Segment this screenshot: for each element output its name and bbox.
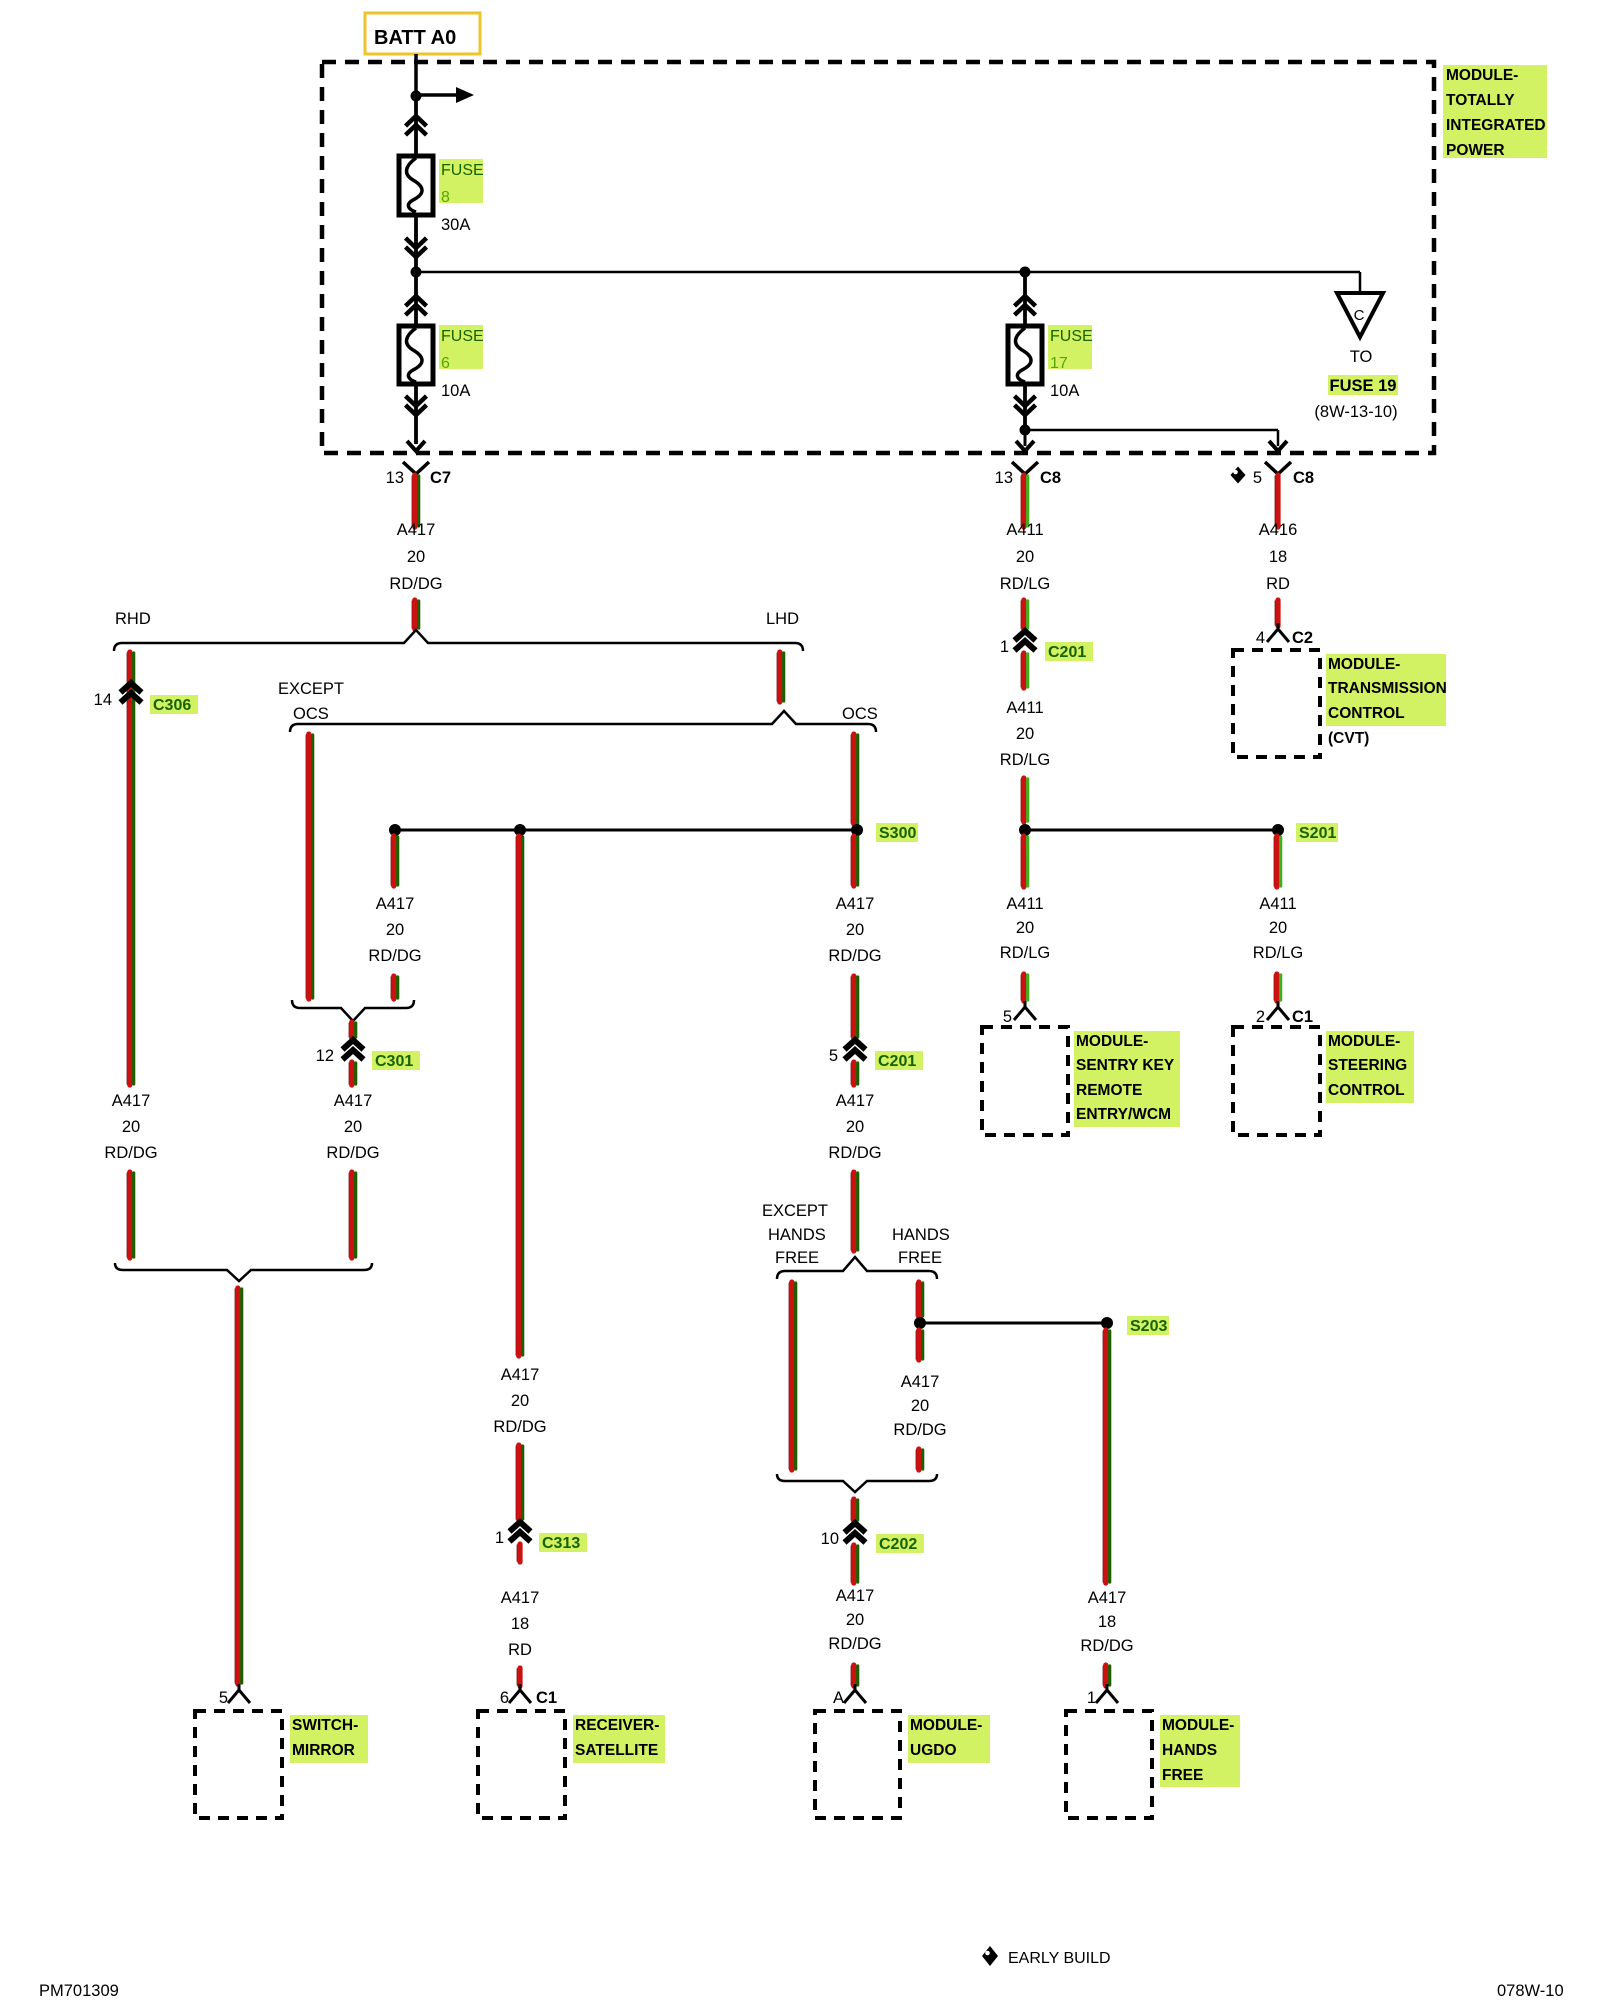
svg-text:RD/DG: RD/DG xyxy=(828,1144,881,1162)
svg-text:20: 20 xyxy=(407,548,425,566)
label MODULE-UGDO xyxy=(908,1715,990,1763)
wire junction to fuse 8 xyxy=(414,96,418,158)
wire arrow to other circuits xyxy=(416,93,457,97)
svg-text:A417: A417 xyxy=(376,895,415,913)
svg-text:FUSE 19: FUSE 19 xyxy=(1330,377,1397,395)
label MODULE-TRANSMISSION CONTROL CVT xyxy=(1326,654,1446,726)
svg-text:SENTRY KEY: SENTRY KEY xyxy=(1076,1057,1175,1074)
svg-text:EXCEPT: EXCEPT xyxy=(278,680,344,698)
connector pin 5 sentry xyxy=(1014,1001,1036,1020)
connector C301 chevrons xyxy=(343,1040,364,1050)
module box MODULE-SENTRY KEY REMOTE ENTRY/WCM xyxy=(982,1027,1068,1135)
svg-text:C8: C8 xyxy=(1293,469,1314,487)
svg-text:A417: A417 xyxy=(836,1587,875,1605)
connector C8 pin 13 symbol xyxy=(1012,462,1038,474)
svg-text:CONTROL: CONTROL xyxy=(1328,1082,1405,1099)
wire A417 RD/DG S203 to hands-free module xyxy=(1102,1331,1104,1582)
svg-text:A417: A417 xyxy=(836,895,875,913)
wire BATT A0 feed xyxy=(414,54,418,93)
svg-text:30A: 30A xyxy=(441,216,470,234)
svg-text:A417: A417 xyxy=(501,1589,540,1607)
svg-text:14: 14 xyxy=(94,691,112,709)
wire A417 RD/DG above C202 xyxy=(850,1500,852,1520)
svg-text:HANDS: HANDS xyxy=(768,1226,826,1244)
svg-text:A411: A411 xyxy=(1006,895,1043,913)
merge brace into C202 xyxy=(777,1474,937,1492)
early build diamond marker at C8 pin 5 xyxy=(1231,467,1246,484)
label FUSE 6 10A xyxy=(439,325,483,369)
svg-text:SATELLITE: SATELLITE xyxy=(575,1742,658,1759)
svg-text:2: 2 xyxy=(1256,1008,1265,1026)
svg-text:A417: A417 xyxy=(901,1373,940,1391)
svg-text:18: 18 xyxy=(511,1615,529,1633)
module box SWITCH-MIRROR xyxy=(195,1711,282,1818)
wire junction to C8 pin 13 xyxy=(1024,430,1027,446)
wire A417 RD/DG to RHD-LHD split xyxy=(411,601,413,628)
svg-text:C8: C8 xyxy=(1040,469,1061,487)
svg-text:S201: S201 xyxy=(1299,825,1336,842)
wire A417 RD/DG to switch-mirror xyxy=(234,1289,236,1683)
svg-text:MODULE-: MODULE- xyxy=(910,1717,982,1734)
wire A411 RD/LG to sentry module xyxy=(1020,975,1022,1000)
svg-text:FREE: FREE xyxy=(1162,1767,1203,1784)
connector chevrons below fuse 8 xyxy=(406,238,427,248)
wire A416 RD below C8 pin 5 xyxy=(1274,476,1276,526)
svg-text:RD/LG: RD/LG xyxy=(1000,575,1050,593)
connector pin 6 C1 receiver xyxy=(509,1684,531,1703)
svg-text:C301: C301 xyxy=(375,1053,413,1070)
wire A417 RD/DG below C201 xyxy=(850,1063,852,1084)
wire bus to fuse 6 xyxy=(414,272,418,328)
svg-text:20: 20 xyxy=(386,921,404,939)
connector pin 1 hands-free xyxy=(1096,1684,1118,1703)
svg-text:RD/DG: RD/DG xyxy=(368,947,421,965)
connector pin 4 C2 transmission xyxy=(1267,623,1289,642)
connector C313 chevrons xyxy=(510,1522,531,1532)
connector pin 5 switch-mirror xyxy=(228,1684,250,1703)
svg-text:6: 6 xyxy=(441,355,450,372)
svg-text:ENTRY/WCM: ENTRY/WCM xyxy=(1076,1106,1171,1123)
svg-text:MODULE-: MODULE- xyxy=(1076,1033,1148,1050)
svg-text:20: 20 xyxy=(122,1118,140,1136)
wire A417 RD/DG to UGDO xyxy=(850,1666,852,1685)
svg-text:20: 20 xyxy=(1269,919,1287,937)
wire A417 RD/DG above C313 xyxy=(515,1446,517,1519)
svg-text:(CVT): (CVT) xyxy=(1328,730,1369,747)
svg-text:REMOTE: REMOTE xyxy=(1076,1082,1142,1099)
svg-text:20: 20 xyxy=(344,1118,362,1136)
svg-text:20: 20 xyxy=(1016,725,1034,743)
RHD / LHD split brace xyxy=(114,630,803,651)
wire A411 RD/LG below C8 xyxy=(1020,476,1022,526)
wire A417 RD/DG hands-free branch xyxy=(915,1283,917,1316)
svg-text:S300: S300 xyxy=(879,825,916,842)
svg-text:FUSE: FUSE xyxy=(441,328,484,345)
svg-text:5: 5 xyxy=(1253,469,1262,487)
svg-text:20: 20 xyxy=(846,1118,864,1136)
svg-text:RD/DG: RD/DG xyxy=(828,947,881,965)
wire A417 RD/DG above C301 xyxy=(348,1023,350,1037)
svg-text:A411: A411 xyxy=(1259,895,1296,913)
svg-text:10: 10 xyxy=(821,1530,839,1548)
label S300 xyxy=(876,823,918,842)
battery feed label BATT A0 xyxy=(365,13,480,54)
svg-text:C7: C7 xyxy=(430,469,451,487)
svg-text:RD: RD xyxy=(1266,575,1290,593)
module box MODULE-TRANSMISSION CONTROL xyxy=(1233,650,1320,757)
splice S201 bus xyxy=(1025,829,1278,832)
label MODULE-HANDS FREE xyxy=(1160,1715,1240,1787)
svg-text:078W-10: 078W-10 xyxy=(1497,1982,1564,2000)
svg-text:A417: A417 xyxy=(112,1092,151,1110)
svg-text:RHD: RHD xyxy=(115,610,151,628)
svg-text:10A: 10A xyxy=(1050,382,1079,400)
svg-text:EXCEPT: EXCEPT xyxy=(762,1202,828,1220)
legend early build diamond xyxy=(982,1946,998,1966)
wire A417 RD/DG to hands-free module xyxy=(1102,1666,1104,1685)
wire A417 RD/DG except-OCS branch xyxy=(305,735,307,998)
svg-text:MODULE-: MODULE- xyxy=(1328,1033,1400,1050)
wire A416 RD to transmission module xyxy=(1274,601,1276,625)
EXCEPT OCS / OCS split brace xyxy=(290,711,876,732)
connector C306 chevrons xyxy=(121,683,142,693)
label FUSE 17 10A xyxy=(1048,325,1092,369)
merge brace to switch-mirror xyxy=(115,1263,372,1281)
connector C202 chevrons xyxy=(845,1523,866,1533)
svg-text:1: 1 xyxy=(1087,1689,1096,1707)
wire horizontal bus xyxy=(416,271,1360,274)
wire fuse 17 to junction xyxy=(1023,384,1027,430)
svg-text:FREE: FREE xyxy=(775,1249,819,1267)
arrowhead at C7 xyxy=(407,441,425,451)
connector C201 pin 5 chevrons xyxy=(845,1040,866,1050)
svg-text:C201: C201 xyxy=(1048,644,1086,661)
svg-text:20: 20 xyxy=(846,921,864,939)
EXCEPT HANDS FREE / HANDS FREE split brace xyxy=(777,1257,937,1279)
svg-text:A411: A411 xyxy=(1006,699,1043,717)
wire A417 RD/DG S300 stub lower xyxy=(390,977,392,998)
wire bus to fuse 17 xyxy=(1023,272,1027,328)
wire A417 RD to receiver-satellite xyxy=(516,1669,518,1685)
wire fuse 6 to connector C7 xyxy=(414,384,418,444)
svg-text:C2: C2 xyxy=(1292,629,1313,647)
wire A417 RD/DG S300 stub xyxy=(390,837,392,885)
node S300 middle xyxy=(514,824,526,836)
module box MODULE-STEERING CONTROL xyxy=(1233,1027,1320,1135)
svg-text:C306: C306 xyxy=(153,697,191,714)
svg-text:A411: A411 xyxy=(1006,521,1043,539)
connector pin 2 C1 steering xyxy=(1267,1001,1289,1020)
svg-text:RD/LG: RD/LG xyxy=(1253,944,1303,962)
off-page connector C triangle xyxy=(1337,293,1383,337)
svg-text:INTEGRATED: INTEGRATED xyxy=(1446,117,1546,134)
module box MODULE-HANDS FREE xyxy=(1066,1711,1152,1818)
wire A411 RD/LG below C201 xyxy=(1020,654,1022,687)
connector chevrons below fuse 17 xyxy=(1015,396,1036,406)
splice S300 bus xyxy=(395,829,857,832)
svg-text:FUSE: FUSE xyxy=(1050,328,1093,345)
svg-text:TO: TO xyxy=(1350,348,1373,366)
svg-text:RD/DG: RD/DG xyxy=(104,1144,157,1162)
svg-text:RD/DG: RD/DG xyxy=(493,1418,546,1436)
label S203 xyxy=(1127,1316,1169,1335)
svg-text:A: A xyxy=(833,1689,844,1707)
label MODULE-STEERING CONTROL xyxy=(1326,1031,1414,1103)
wire A417 RD/DG LHD branch xyxy=(776,653,778,701)
svg-text:C201: C201 xyxy=(878,1053,916,1070)
arrowhead at C8 pin 5 xyxy=(1269,441,1287,451)
connector chevrons above fuse 17 xyxy=(1015,296,1036,306)
svg-text:5: 5 xyxy=(1003,1008,1012,1026)
wire A417 RD/DG above merge xyxy=(915,1450,917,1469)
svg-text:MODULE-: MODULE- xyxy=(1162,1717,1234,1734)
svg-text:OCS: OCS xyxy=(842,705,878,723)
module box RECEIVER-SATELLITE xyxy=(478,1711,565,1818)
svg-text:12: 12 xyxy=(316,1047,334,1065)
module-totally integrated power dashed box xyxy=(322,62,1434,453)
label MODULE-TOTALLY INTEGRATED POWER xyxy=(1443,65,1547,158)
svg-text:TOTALLY: TOTALLY xyxy=(1446,92,1515,109)
connector C7 pin 13 symbol xyxy=(403,462,429,474)
svg-text:EARLY BUILD: EARLY BUILD xyxy=(1008,1950,1111,1967)
svg-text:OCS: OCS xyxy=(293,705,329,723)
wire A417 RD/DG S300 to C313 xyxy=(515,837,517,1355)
wire A411 RD/LG above C201 xyxy=(1020,601,1022,628)
svg-text:MIRROR: MIRROR xyxy=(292,1742,355,1759)
svg-text:C1: C1 xyxy=(1292,1008,1313,1026)
svg-text:HANDS: HANDS xyxy=(1162,1742,1217,1759)
wire A417 RD/DG RHD branch xyxy=(126,653,128,1084)
wire A417 RD/DG below S300 xyxy=(850,837,852,885)
wire A411 RD/LG below S201 right xyxy=(1273,837,1275,886)
module box MODULE-UGDO xyxy=(815,1711,900,1818)
node S300 right xyxy=(851,824,863,836)
svg-text:FUSE: FUSE xyxy=(441,162,484,179)
wire A417 RD/DG below S203 xyxy=(915,1331,917,1359)
svg-text:A416: A416 xyxy=(1259,521,1298,539)
svg-text:RD/DG: RD/DG xyxy=(828,1635,881,1653)
wire junction to C8 pin 5 xyxy=(1025,429,1278,432)
svg-text:C202: C202 xyxy=(879,1536,917,1553)
fuse 17 10A symbol xyxy=(1008,326,1042,384)
wire fuse 8 to bus xyxy=(414,215,418,270)
connector chevrons above fuse 6 xyxy=(406,296,427,306)
svg-text:RD/DG: RD/DG xyxy=(893,1421,946,1439)
merge brace into C301 xyxy=(292,1000,414,1021)
svg-text:20: 20 xyxy=(846,1611,864,1629)
svg-text:A417: A417 xyxy=(1088,1589,1127,1607)
svg-text:HANDS: HANDS xyxy=(892,1226,950,1244)
node fuse bus junction xyxy=(411,267,422,278)
svg-text:STEERING: STEERING xyxy=(1328,1057,1407,1074)
wire bus to off-page connector xyxy=(1359,272,1362,293)
wire A417 RD/DG OCS branch xyxy=(850,735,852,823)
svg-text:FREE: FREE xyxy=(898,1249,942,1267)
connector pin A UGDO xyxy=(844,1684,866,1703)
svg-text:18: 18 xyxy=(1098,1613,1116,1631)
svg-text:1: 1 xyxy=(1000,638,1009,656)
svg-text:TRANSMISSION: TRANSMISSION xyxy=(1328,680,1447,697)
svg-text:C313: C313 xyxy=(542,1535,580,1552)
svg-text:PM701309: PM701309 xyxy=(39,1982,119,2000)
svg-text:RD/LG: RD/LG xyxy=(1000,751,1050,769)
svg-text:C1: C1 xyxy=(536,1689,557,1707)
svg-text:MODULE-: MODULE- xyxy=(1328,656,1400,673)
node S203 right xyxy=(1101,1317,1113,1329)
connector chevrons above fuse 8 xyxy=(406,116,427,126)
wire A417 RD/DG below C7 xyxy=(411,476,413,526)
connector C8 pin 5 symbol xyxy=(1265,462,1291,474)
label S201 xyxy=(1296,823,1338,842)
wire A417 RD/DG above C201 xyxy=(850,977,852,1037)
svg-text:5: 5 xyxy=(219,1689,228,1707)
svg-text:RD/DG: RD/DG xyxy=(389,575,442,593)
svg-text:20: 20 xyxy=(1016,919,1034,937)
label RECEIVER-SATELLITE xyxy=(573,1715,665,1763)
node fuse 17 output junction xyxy=(1020,425,1031,436)
svg-text:A417: A417 xyxy=(334,1092,373,1110)
node S300 left xyxy=(389,824,401,836)
node bus tap fuse 17 xyxy=(1020,267,1031,278)
node S201 right xyxy=(1272,824,1284,836)
svg-text:RD: RD xyxy=(508,1641,532,1659)
svg-text:POWER: POWER xyxy=(1446,142,1505,159)
svg-text:10A: 10A xyxy=(441,382,470,400)
svg-text:S203: S203 xyxy=(1130,1318,1167,1335)
svg-text:8: 8 xyxy=(441,189,450,206)
wire A417 RD/DG below C202 xyxy=(850,1546,852,1582)
splice S203 bus xyxy=(920,1322,1107,1325)
label SWITCH-MIRROR xyxy=(290,1715,368,1763)
svg-text:5: 5 xyxy=(829,1047,838,1065)
wire A417 RD/DG except-hands-free branch xyxy=(788,1283,790,1469)
wire A417 RD below C313 xyxy=(516,1545,518,1561)
label FUSE 8 30A xyxy=(439,159,483,203)
node S203 left xyxy=(914,1317,926,1329)
svg-text:LHD: LHD xyxy=(766,610,799,628)
svg-text:SWITCH-: SWITCH- xyxy=(292,1717,358,1734)
label MODULE-SENTRY KEY REMOTE ENTRY/WCM xyxy=(1074,1031,1180,1127)
connector C201 pin 1 chevrons xyxy=(1015,631,1036,641)
svg-text:13: 13 xyxy=(386,469,404,487)
wire A411 RD/LG below S201 xyxy=(1020,837,1022,886)
svg-text:A417: A417 xyxy=(501,1366,540,1384)
connector chevrons below fuse 6 xyxy=(406,396,427,406)
wire A411 RD/LG to S201 xyxy=(1020,779,1022,821)
svg-text:RD/DG: RD/DG xyxy=(1080,1637,1133,1655)
svg-text:18: 18 xyxy=(1269,548,1287,566)
svg-text:C: C xyxy=(1354,307,1365,324)
node battery junction xyxy=(411,91,422,102)
svg-text:20: 20 xyxy=(911,1397,929,1415)
svg-text:CONTROL: CONTROL xyxy=(1328,705,1405,722)
svg-text:20: 20 xyxy=(511,1392,529,1410)
wire A417 RD/DG below C301 xyxy=(348,1063,350,1084)
svg-text:RD/DG: RD/DG xyxy=(326,1144,379,1162)
svg-text:(8W-13-10): (8W-13-10) xyxy=(1314,403,1397,421)
svg-text:1: 1 xyxy=(495,1529,504,1547)
svg-text:BATT A0: BATT A0 xyxy=(374,27,456,49)
svg-text:RECEIVER-: RECEIVER- xyxy=(575,1717,659,1734)
wire A417 RD/DG C301 lower xyxy=(348,1173,350,1257)
svg-text:MODULE-: MODULE- xyxy=(1446,67,1518,84)
svg-text:13: 13 xyxy=(995,469,1013,487)
svg-text:20: 20 xyxy=(1016,548,1034,566)
wire A411 RD/LG to steering module xyxy=(1273,975,1275,1000)
svg-text:RD/LG: RD/LG xyxy=(1000,944,1050,962)
svg-text:4: 4 xyxy=(1256,629,1265,647)
fuse 8 30A symbol xyxy=(399,156,433,215)
node S201 left xyxy=(1019,824,1031,836)
svg-text:A417: A417 xyxy=(836,1092,875,1110)
wire A417 RD/DG to hands-free split xyxy=(850,1173,852,1250)
svg-text:6: 6 xyxy=(500,1689,509,1707)
svg-text:17: 17 xyxy=(1050,355,1068,372)
fuse 6 10A symbol xyxy=(399,326,433,384)
svg-text:A417: A417 xyxy=(397,521,436,539)
arrowhead at C8 pin 13 xyxy=(1016,441,1034,451)
svg-text:UGDO: UGDO xyxy=(910,1742,957,1759)
wire A417 RD/DG RHD lower xyxy=(126,1173,128,1257)
